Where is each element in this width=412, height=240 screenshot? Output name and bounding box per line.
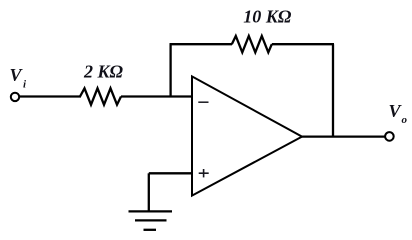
resistor R2 10 KOhm	[232, 36, 272, 52]
wire R1 to op-amp inverting input	[121, 95, 192, 97]
wire input Vi to R1	[19, 95, 81, 97]
wire ground vertical	[148, 173, 150, 211]
ground	[129, 211, 173, 229]
node Vi terminal	[11, 93, 19, 101]
svg-text:V: V	[389, 101, 403, 121]
pin label plus (non-inverting input)	[199, 169, 209, 177]
wire feedback tap vertical	[169, 44, 171, 96]
wire feedback right vertical	[332, 44, 334, 136]
label Vi	[10, 65, 28, 91]
wire output	[301, 135, 385, 137]
wire non-inverting input horizontal	[149, 172, 192, 174]
svg-text:2 KΩ: 2 KΩ	[83, 62, 124, 82]
svg-text:o: o	[402, 114, 408, 126]
wire feedback top left	[170, 43, 233, 45]
resistor R1 2 KOhm	[80, 88, 121, 104]
pin label minus (inverting input)	[198, 101, 208, 103]
wire feedback top right	[272, 43, 334, 45]
node Vo terminal	[385, 132, 394, 141]
svg-text:10 KΩ: 10 KΩ	[243, 7, 292, 27]
label Vo	[389, 101, 408, 126]
svg-text:V: V	[10, 65, 24, 85]
op-amp U1 triangle	[192, 76, 302, 195]
